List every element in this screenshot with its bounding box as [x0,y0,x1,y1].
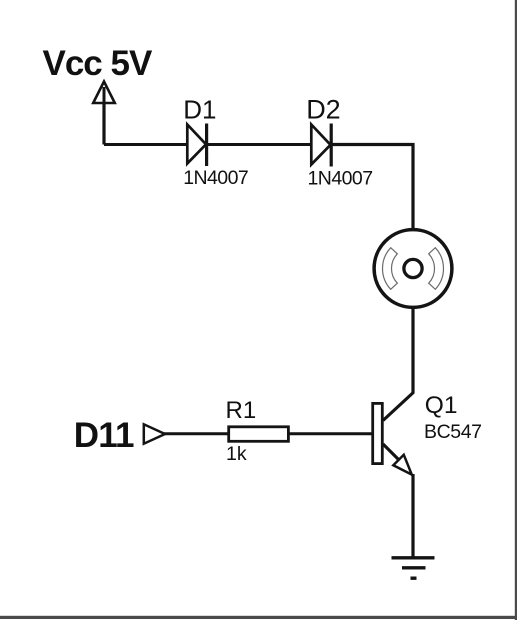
svg-text:Q1: Q1 [425,392,458,419]
svg-text:R1: R1 [226,397,257,424]
svg-text:1k: 1k [226,443,247,465]
svg-text:D11: D11 [74,416,134,455]
svg-text:Vcc 5V: Vcc 5V [43,44,153,83]
svg-text:D2: D2 [306,94,341,124]
svg-text:1N4007: 1N4007 [308,167,373,189]
svg-text:D1: D1 [183,94,216,124]
svg-text:1N4007: 1N4007 [183,167,248,189]
svg-text:BC547: BC547 [424,421,482,443]
